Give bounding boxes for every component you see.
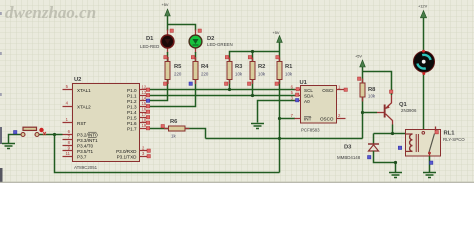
- svg-text:10k: 10k: [368, 94, 376, 99]
- U2 left pin stubs: [63, 84, 73, 157]
- wire R5 bottom to P1.2: [147, 80, 168, 101]
- U1 left pin stubs: [291, 85, 301, 119]
- LED D1 (LED-RED): [140, 30, 174, 54]
- wire R8 bottom to base and long wire: [362, 97, 364, 139]
- svg-text:P3.2/INT0: P3.2/INT0: [77, 133, 98, 138]
- ground (button): [2, 144, 15, 149]
- wire speaker to relay: [422, 72, 425, 130]
- svg-text:P1.5: P1.5: [127, 116, 137, 121]
- svg-text:R8: R8: [368, 87, 376, 93]
- svg-text:R3: R3: [235, 64, 243, 70]
- svg-text:RL1: RL1: [444, 131, 456, 137]
- svg-text:10k: 10k: [235, 72, 243, 77]
- LED D2 (LED-GREEN): [189, 30, 233, 54]
- wire collector down: [392, 125, 394, 134]
- wire base: [363, 112, 378, 114]
- IC U2 AT89C2051: [73, 77, 140, 170]
- svg-text:A0: A0: [304, 99, 310, 104]
- svg-text:+5V: +5V: [355, 54, 362, 59]
- probe markers red: [146, 29, 438, 158]
- wire P1.7 to R6: [147, 128, 169, 130]
- wire +5V to R8 top: [362, 67, 364, 83]
- resistor R8 10k: [360, 83, 376, 99]
- power +5V symbol (pullup rail): [273, 30, 283, 43]
- svg-text:P3.7: P3.7: [77, 155, 87, 160]
- svg-text:12: 12: [142, 85, 147, 90]
- svg-text:AT89C2051: AT89C2051: [74, 165, 98, 170]
- svg-text:R1: R1: [285, 64, 293, 70]
- svg-text:U1: U1: [300, 80, 308, 86]
- svg-text:19: 19: [142, 123, 147, 128]
- resistor R6 1k: [169, 119, 186, 139]
- wire ground to button: [9, 135, 21, 144]
- wire +5V branch to emitter: [363, 72, 392, 96]
- transistor Q1 2N3906: [377, 95, 417, 125]
- svg-text:U2: U2: [74, 77, 81, 83]
- diode D3 MMBD4148: [337, 144, 379, 160]
- wire R1 bottom INT vertical: [279, 80, 281, 173]
- node long-wire junction: [278, 137, 281, 140]
- svg-text:RST: RST: [77, 121, 86, 126]
- svg-text:11: 11: [66, 151, 71, 156]
- svg-text:P1.1: P1.1: [127, 94, 137, 99]
- wire SCL line P1.0 to U1: [147, 89, 295, 91]
- svg-text:P1.0: P1.0: [127, 88, 137, 93]
- svg-text:R5: R5: [174, 64, 182, 70]
- svg-text:220: 220: [174, 72, 182, 77]
- svg-text:MMBD4148: MMBD4148: [337, 155, 361, 160]
- svg-text:RLY-SPCO: RLY-SPCO: [443, 137, 465, 142]
- svg-text:10k: 10k: [285, 72, 293, 77]
- svg-text:P3.3/INT1: P3.3/INT1: [77, 138, 98, 143]
- IC U1 PCF8583: [300, 80, 337, 133]
- node base junction: [361, 111, 364, 114]
- power +5V symbol (R8 rail): [355, 54, 365, 68]
- resistor R3 10k: [227, 62, 243, 80]
- speaker LS1: [414, 50, 435, 72]
- svg-text:SDA: SDA: [304, 94, 314, 99]
- svg-text:XTAL1: XTAL1: [77, 88, 91, 93]
- svg-text:+5V: +5V: [273, 30, 280, 35]
- wire relay bottom pin to ground: [429, 156, 431, 172]
- wire +5V stem to D1: [167, 16, 169, 31]
- svg-text:dwenzhao.cn: dwenzhao.cn: [5, 3, 96, 22]
- background grid: [0, 0, 474, 183]
- pushbutton: [21, 127, 46, 136]
- svg-text:P3.1/TXD: P3.1/TXD: [117, 155, 138, 160]
- svg-text:1k: 1k: [171, 134, 176, 139]
- wire R3 bottom to SCL: [229, 80, 231, 90]
- svg-text:R4: R4: [201, 64, 209, 70]
- power +12V symbol: [418, 4, 428, 18]
- svg-text:2N3906: 2N3906: [401, 108, 417, 113]
- node rail junction: [251, 50, 254, 53]
- wire +12V to speaker: [423, 18, 425, 52]
- node button junction: [53, 133, 56, 136]
- svg-text:D3: D3: [344, 145, 352, 151]
- relay RL1 RLY-SPCO: [406, 127, 466, 157]
- resistor pin leads: [164, 57, 363, 129]
- svg-text:13: 13: [142, 90, 147, 95]
- svg-text:+5V: +5V: [162, 2, 169, 7]
- wire D2 to R4: [195, 52, 197, 62]
- resistor R1 10k: [277, 62, 293, 80]
- svg-text:XTAL2: XTAL2: [77, 105, 91, 110]
- svg-text:P3.4/T0: P3.4/T0: [77, 144, 94, 149]
- ground (relay): [423, 173, 436, 178]
- svg-text:LED-RED: LED-RED: [140, 44, 159, 49]
- wire +5V stem to R1: [279, 43, 281, 62]
- node D3 ground junction: [394, 161, 397, 164]
- svg-text:17: 17: [142, 112, 147, 117]
- wire bottom route INT0: [55, 135, 280, 173]
- wire SDA line P1.1 to U1: [147, 95, 295, 97]
- wire R2 bottom to SDA: [252, 80, 254, 96]
- wire INT to U1: [280, 118, 296, 120]
- svg-text:14: 14: [142, 96, 147, 101]
- resistor R5 220: [165, 62, 182, 80]
- wire coil top rail: [374, 133, 406, 135]
- wire D3 top: [373, 134, 375, 145]
- node INT wire junction: [278, 117, 281, 120]
- edge artifacts: [0, 12, 474, 183]
- svg-text:10k: 10k: [258, 72, 266, 77]
- wire long horizontal R6 to R8: [206, 138, 363, 140]
- svg-text:PCF8583: PCF8583: [301, 128, 320, 133]
- svg-text:P3.5/T1: P3.5/T1: [77, 149, 94, 154]
- power +5V symbol (LED rail): [162, 2, 171, 16]
- watermark dwenzhao.cn: [5, 3, 96, 22]
- wire D1 to R5: [167, 52, 169, 62]
- wire D3 bottom to ground: [374, 151, 396, 172]
- wire branch to D2: [168, 25, 196, 31]
- probe markers blue: [14, 82, 433, 164]
- node R3-SCL junction: [228, 88, 231, 91]
- wire R6 to long wire: [185, 129, 206, 139]
- svg-text:P1.2: P1.2: [127, 99, 137, 104]
- svg-text:D1: D1: [146, 36, 154, 42]
- svg-text:P3.0/RXD: P3.0/RXD: [116, 149, 137, 154]
- resistor R2 10k: [250, 62, 266, 80]
- U1 right pin stubs: [337, 85, 346, 119]
- node collector junction: [391, 132, 394, 135]
- svg-text:LED-GREEN: LED-GREEN: [207, 42, 233, 47]
- node R2-SDA junction: [251, 94, 254, 97]
- svg-text:15: 15: [142, 101, 147, 106]
- svg-text:220: 220: [201, 72, 209, 77]
- svg-text:R6: R6: [170, 119, 178, 125]
- svg-text:P1.6: P1.6: [127, 121, 137, 126]
- resistor R4 220: [193, 62, 209, 80]
- svg-text:18: 18: [142, 118, 147, 123]
- ground (D3): [389, 173, 402, 178]
- svg-text:OSCI: OSCI: [322, 88, 333, 93]
- U2 right pin stubs: [140, 85, 148, 157]
- ground (A0): [251, 124, 264, 129]
- svg-text:P1.4: P1.4: [127, 110, 137, 115]
- svg-text:P1.3: P1.3: [127, 105, 137, 110]
- svg-text:INT: INT: [304, 117, 312, 122]
- wire A0 to ground: [258, 101, 296, 123]
- svg-text:OSCO: OSCO: [320, 117, 334, 122]
- svg-text:R2: R2: [258, 64, 265, 70]
- svg-text:+12V: +12V: [418, 4, 428, 9]
- wire button to P3.2: [40, 134, 63, 136]
- svg-text:P1.7: P1.7: [127, 127, 137, 132]
- svg-text:16: 16: [142, 107, 147, 112]
- svg-text:SCL: SCL: [304, 88, 313, 93]
- wire +5V rail to R3 R2 tops: [230, 52, 280, 62]
- wire R4 bottom to P1.3: [147, 80, 196, 107]
